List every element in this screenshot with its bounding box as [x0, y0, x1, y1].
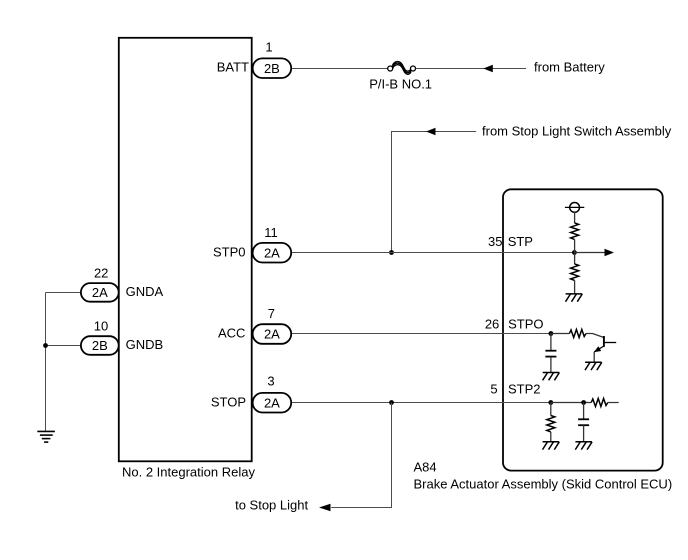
- power symbol B+: [565, 203, 584, 213]
- ground STP pull-down: [566, 294, 583, 302]
- wire STOP to ECU pin 5: [291, 402, 551, 404]
- wire resistor to STP node: [574, 239, 576, 252]
- capacitor C2: [578, 419, 589, 425]
- earth ground symbol: [37, 431, 55, 442]
- ground C2: [575, 442, 592, 450]
- pin 22 connector 2A (GNDA): [81, 283, 119, 302]
- junction stop light switch / STP0 wire: [389, 250, 394, 255]
- svg-text:No. 2 Integration Relay: No. 2 Integration Relay: [122, 464, 255, 479]
- wire resistor to transistor base: [586, 334, 604, 338]
- svg-text:STP: STP: [508, 234, 533, 249]
- svg-text:2A: 2A: [264, 327, 280, 342]
- wire cap tap to capacitor C2: [583, 403, 585, 420]
- wire GNDA to ground bus: [46, 292, 81, 294]
- junction GNDB / ground bus: [43, 343, 48, 348]
- svg-text:11: 11: [264, 225, 278, 240]
- svg-text:ACC: ACC: [218, 326, 245, 341]
- wire ground bus vertical: [45, 293, 47, 432]
- pin 10 connector 2B (GNDB): [81, 336, 119, 355]
- wire R3 to ground: [550, 432, 552, 442]
- relay box No. 2 Integration Relay: [119, 38, 252, 462]
- svg-text:A84: A84: [414, 460, 437, 475]
- wire STP2 node to cap tap: [551, 402, 591, 404]
- wire fuse to battery source: [416, 68, 526, 70]
- junction to stop light tap: [389, 400, 394, 405]
- wire STP0 to ECU pin 35: [291, 252, 574, 254]
- svg-text:10: 10: [94, 318, 108, 333]
- junction STP2 cap tap: [581, 400, 586, 405]
- fuse P/I-B NO.1: [388, 62, 416, 75]
- wire to Stop Light: [331, 403, 391, 508]
- svg-text:7: 7: [268, 306, 275, 321]
- wire resistor 2 to ground: [574, 280, 576, 294]
- svg-text:5: 5: [490, 382, 497, 397]
- pin 7 connector 2A (ACC): [253, 324, 292, 344]
- wire capacitor to ground: [550, 357, 552, 373]
- wire STP node to resistor 2: [574, 253, 576, 265]
- svg-text:P/I-B NO.1: P/I-B NO.1: [369, 76, 432, 91]
- wire power symbol to resistor: [574, 212, 576, 223]
- transistor Q1: [594, 336, 616, 352]
- resistor base STPO: [569, 330, 586, 338]
- svg-text:2B: 2B: [92, 338, 108, 353]
- svg-text:Brake Actuator Assembly (Skid: Brake Actuator Assembly (Skid Control EC…: [414, 477, 673, 492]
- svg-text:from Stop Light Switch Assembl: from Stop Light Switch Assembly: [482, 123, 672, 138]
- junction STPO node: [549, 331, 554, 336]
- junction STP2 resistor tap: [548, 400, 553, 405]
- svg-text:GNDA: GNDA: [126, 284, 164, 299]
- pin 1 connector 2B (BATT): [253, 58, 292, 78]
- svg-text:1: 1: [265, 40, 272, 55]
- svg-text:2A: 2A: [92, 285, 108, 300]
- junction STP node: [572, 250, 577, 255]
- wire STP2 tap to resistor R3: [550, 403, 552, 416]
- svg-text:2B: 2B: [264, 61, 280, 76]
- svg-text:STPO: STPO: [508, 316, 543, 331]
- svg-text:35: 35: [488, 234, 502, 249]
- svg-text:2A: 2A: [264, 395, 280, 410]
- wire STPO node to base resistor: [551, 333, 570, 335]
- svg-text:BATT: BATT: [217, 60, 249, 75]
- arrow from Battery: [483, 65, 493, 73]
- svg-text:from Battery: from Battery: [534, 59, 605, 74]
- svg-text:STP0: STP0: [213, 244, 246, 259]
- resistor R3 to ground: [547, 416, 555, 432]
- resistor pull-up STP: [571, 223, 579, 239]
- svg-text:22: 22: [94, 266, 108, 281]
- ground R3: [543, 442, 560, 450]
- resistor series STP2: [591, 399, 608, 407]
- pin 11 connector 2A (STP0): [253, 243, 292, 263]
- svg-text:3: 3: [267, 374, 274, 389]
- wire after resistor: [608, 402, 619, 404]
- arrow to Stop Light: [319, 504, 331, 512]
- svg-text:GNDB: GNDB: [126, 337, 164, 352]
- capacitor C1: [545, 351, 556, 357]
- svg-text:2A: 2A: [264, 245, 280, 260]
- arrow STP internal output: [574, 252, 606, 254]
- ECU box A84 Brake Actuator Assembly: [503, 189, 663, 470]
- wire BATT pin to fuse: [292, 68, 388, 70]
- wire emitter to ground: [593, 352, 595, 362]
- wire from Stop Light Switch Assembly: [392, 132, 477, 253]
- pin 3 connector 2A (STOP): [253, 393, 292, 413]
- arrow from Stop Light Switch Assembly: [426, 128, 436, 136]
- wire C2 to ground: [583, 425, 585, 442]
- wire STPO node to capacitor: [550, 334, 552, 351]
- ground transistor emitter: [585, 362, 602, 370]
- svg-text:26: 26: [485, 316, 499, 331]
- svg-text:STOP: STOP: [211, 395, 246, 410]
- svg-text:to Stop Light: to Stop Light: [235, 498, 308, 513]
- resistor pull-down STP: [571, 264, 579, 280]
- wire GNDB to ground bus: [46, 345, 81, 347]
- svg-text:STP2: STP2: [508, 382, 541, 397]
- wire ACC to ECU pin 26: [290, 333, 551, 335]
- ground capacitor C1: [543, 373, 560, 381]
